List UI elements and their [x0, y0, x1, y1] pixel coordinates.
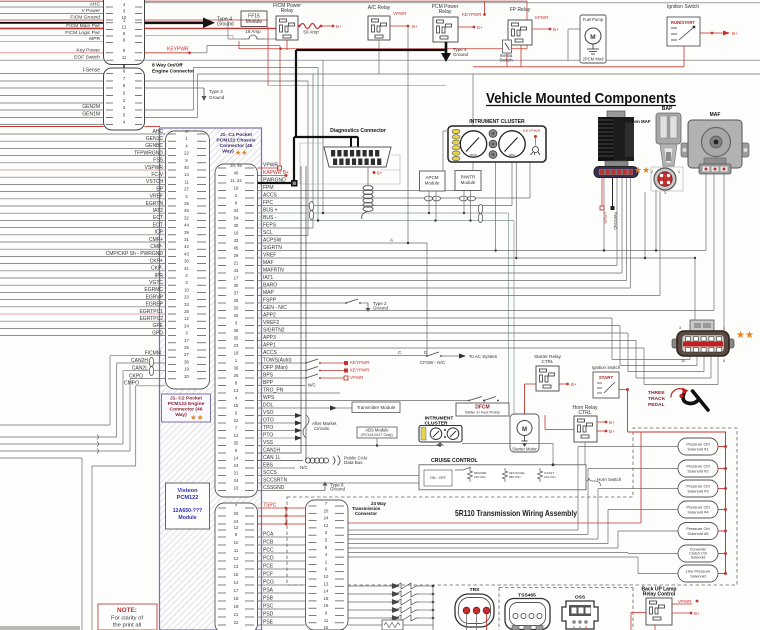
wire riser — [511, 162, 513, 206]
wire TRO_PN — [258, 392, 341, 394]
junction — [298, 25, 301, 28]
wire riser round conn3 — [659, 192, 661, 296]
instrument cluster box — [448, 126, 546, 162]
wire long bus upper — [145, 59, 760, 61]
connector J1-C1 right strip — [215, 164, 258, 497]
svg-text:VREF2: VREF2 — [263, 320, 279, 326]
connector J1-C1 left strip — [166, 131, 210, 389]
svg-text:36: 36 — [184, 359, 189, 364]
svg-text:Way): Way) — [222, 149, 234, 155]
wire PCB — [258, 544, 306, 546]
svg-text:CMPO: CMPO — [124, 381, 139, 387]
wire red AHC feed 2 — [145, 126, 161, 128]
svg-text:GPE: GPE — [152, 323, 163, 329]
svg-text:11: 11 — [324, 618, 329, 623]
wire GEN1C — [0, 140, 166, 142]
svg-text:27: 27 — [184, 352, 189, 357]
wire pedal pin drop — [696, 356, 698, 366]
svg-text:VREF: VREF — [150, 194, 163, 200]
diode-coil symbol — [390, 599, 419, 605]
wire relay drop — [378, 40, 380, 74]
wire — [619, 389, 626, 391]
svg-text:32: 32 — [184, 215, 189, 220]
wire — [0, 80, 104, 82]
svg-text:VPWR: VPWR — [603, 212, 608, 224]
svg-text:3: 3 — [679, 326, 681, 330]
wire ABS drop — [376, 438, 378, 446]
wire IAT1 — [258, 280, 627, 282]
svg-text:13: 13 — [234, 388, 239, 393]
wire solenoid B+ — [718, 573, 726, 575]
svg-text:2PCM Mod: 2PCM Mod — [583, 57, 605, 62]
svg-text:THREE: THREE — [648, 390, 665, 396]
wire backup left — [631, 612, 646, 614]
svg-text:B+: B+ — [377, 171, 383, 176]
connector pedal main — [672, 331, 734, 356]
wire cluster drop 1 — [495, 162, 497, 251]
junction — [550, 16, 552, 18]
solenoid Pressure Ctrl Solenoid #4 — [678, 501, 718, 518]
svg-text:Module: Module — [425, 181, 440, 186]
junction — [432, 617, 435, 620]
svg-text:KEYPWR: KEYPWR — [350, 360, 370, 365]
svg-text:CAN1H: CAN1H — [263, 448, 280, 454]
wire EGRTPC2 — [0, 320, 166, 322]
wire solenoid feed drop — [627, 390, 629, 433]
wire — [360, 302, 368, 304]
arrow after-market — [295, 436, 302, 441]
svg-text:BUS -: BUS - — [263, 215, 277, 221]
svg-text:A/C Relay: A/C Relay — [368, 5, 391, 11]
wire green bus — [194, 67, 319, 69]
svg-text:CAN 1L: CAN 1L — [263, 455, 281, 461]
wire GPE — [0, 327, 166, 329]
svg-text:KEYPWR: KEYPWR — [350, 368, 370, 373]
wire into solenoid — [638, 573, 678, 575]
svg-text:RPM: RPM — [470, 153, 477, 157]
wire — [545, 429, 574, 431]
wire PSB — [258, 600, 306, 602]
wire APCM drop1 — [428, 191, 430, 213]
wire into solenoid — [618, 530, 678, 532]
wire — [0, 124, 104, 126]
junction — [376, 444, 378, 446]
svg-text:FICM Ground: FICM Ground — [70, 15, 100, 21]
junction — [694, 257, 696, 259]
wire DOL — [258, 407, 331, 409]
node TSPC — [285, 523, 288, 526]
junction — [434, 219, 436, 221]
svg-text:PWRGND: PWRGND — [613, 212, 618, 230]
connector diagnostics OBD — [324, 147, 391, 167]
wire — [228, 38, 241, 40]
wire shift solenoid — [348, 593, 390, 595]
wire TPO — [258, 430, 296, 432]
wire into solenoid — [578, 446, 678, 448]
svg-text:26: 26 — [234, 298, 239, 303]
wire into solenoid — [608, 509, 678, 511]
wire MAFRTN — [258, 272, 623, 274]
svg-text:Relay Control: Relay Control — [643, 592, 676, 598]
wire — [597, 421, 605, 423]
wire SIGRTN — [258, 250, 707, 252]
svg-text:Solenoid #4: Solenoid #4 — [687, 510, 709, 515]
svg-text:Engine Connector: Engine Connector — [152, 69, 194, 75]
wire — [403, 624, 433, 626]
wire FICM ground to module — [145, 19, 269, 21]
wire — [193, 68, 195, 110]
svg-text:24: 24 — [234, 519, 239, 524]
wire thick to diagnostics — [294, 136, 358, 138]
svg-text:FP Relay: FP Relay — [510, 7, 531, 13]
wire — [568, 28, 580, 30]
svg-text:Connector (46: Connector (46 — [170, 407, 203, 413]
svg-text:MAF: MAF — [710, 112, 721, 118]
svg-text:★★: ★★ — [634, 165, 650, 175]
resistor cruise resume — [468, 468, 473, 482]
junction VSS — [439, 444, 441, 446]
diode-coil symbol — [390, 607, 419, 613]
wire VREF — [0, 198, 166, 200]
wire FPM — [258, 190, 474, 192]
svg-text:34: 34 — [234, 208, 239, 213]
svg-text:PEDAL: PEDAL — [648, 402, 665, 408]
svg-text:20: 20 — [184, 374, 189, 379]
wire B+ feed top — [0, 0, 527, 2]
wire PCF — [258, 576, 306, 578]
svg-text:24: 24 — [234, 463, 239, 468]
wire B+ feed lower — [473, 66, 684, 68]
svg-text:SIGRTN2: SIGRTN2 — [263, 328, 285, 334]
wire ACCS — [258, 197, 531, 199]
wire — [92, 465, 136, 467]
boundary sensors dashed box — [499, 588, 633, 630]
wire — [265, 38, 278, 40]
svg-text:MPH: MPH — [509, 153, 516, 157]
junction cruise top — [552, 463, 555, 466]
telltale — [489, 140, 497, 148]
wire bend — [122, 371, 124, 444]
junction — [690, 612, 693, 615]
svg-text:Key Power: Key Power — [76, 47, 100, 53]
svg-text:30: 30 — [184, 259, 189, 264]
wire riser strip pin1 — [603, 178, 605, 251]
svg-text:APP2: APP2 — [263, 313, 276, 319]
wire pedal feed — [694, 258, 696, 320]
wire pedal pin drop — [717, 356, 719, 385]
wire solenoid riser — [637, 557, 639, 574]
svg-text:KPWR: KPWR — [535, 15, 549, 20]
svg-text:RIWTR: RIWTR — [461, 175, 476, 180]
node KEYPWR cluster — [534, 135, 537, 138]
svg-text:★★: ★★ — [736, 330, 754, 341]
svg-text:3: 3 — [664, 191, 666, 195]
junction — [432, 609, 435, 612]
wire ACPSW — [258, 242, 428, 244]
svg-text:MAF: MAF — [263, 260, 274, 266]
ground symbol fuel pump — [587, 44, 599, 54]
diode-coil symbol — [390, 583, 419, 589]
svg-text:RUN/START: RUN/START — [671, 20, 695, 25]
wire MAF — [258, 265, 618, 267]
wire TRS1 — [466, 614, 468, 630]
svg-text:VPWR: VPWR — [393, 11, 407, 16]
wire diag ground — [367, 167, 369, 185]
label box J1-C2 — [162, 394, 211, 422]
connector 24-way transmission — [306, 500, 349, 630]
twisted pair RIWTR — [460, 196, 468, 201]
svg-text:25: 25 — [184, 201, 189, 206]
node start B+ — [626, 388, 629, 391]
wire GEN1M ext — [145, 117, 198, 119]
wire shift solenoid — [348, 601, 390, 603]
wire break — [97, 449, 99, 454]
node KEYPWR — [188, 51, 191, 54]
svg-text:Module: Module — [246, 19, 263, 25]
wire shift solenoid — [348, 609, 390, 611]
svg-text:CTRL: CTRL — [578, 410, 591, 416]
svg-text:45: 45 — [184, 208, 189, 213]
wire feed — [0, 450, 130, 452]
relay PCM power — [433, 17, 458, 42]
svg-text:Fuel Pump: Fuel Pump — [583, 17, 604, 22]
switch cruise onoff — [424, 470, 452, 486]
wire SCCS — [258, 475, 420, 477]
svg-text:Ground: Ground — [373, 306, 389, 311]
wire CSSGND — [258, 490, 326, 492]
connector Visteon MAF strip — [594, 161, 638, 178]
svg-text:220 Ohm: 220 Ohm — [474, 475, 486, 479]
node KEYPWR square — [344, 361, 348, 365]
svg-text:GEN1M: GEN1M — [82, 112, 100, 118]
wire EGREP — [0, 306, 166, 308]
diode-coil symbol — [390, 591, 419, 597]
twisted pair APCM — [425, 196, 433, 201]
svg-text:24: 24 — [234, 478, 239, 483]
wire solenoid riser — [627, 553, 629, 554]
svg-text:CFSW - N/C: CFSW - N/C — [420, 360, 446, 365]
svg-text:50 Amp: 50 Amp — [303, 30, 319, 35]
svg-text:Type 2: Type 2 — [209, 89, 223, 94]
svg-text:43: 43 — [184, 251, 189, 256]
module cruise control box — [419, 465, 586, 490]
indicator lamp — [452, 129, 460, 133]
wire TSPC link — [285, 508, 287, 524]
wire GEN2M ext — [145, 109, 194, 111]
scan edge artifact — [0, 626, 80, 630]
wire — [0, 19, 104, 21]
svg-text:CMP+: CMP+ — [149, 237, 163, 243]
svg-text:★★: ★★ — [235, 149, 248, 157]
indicator lamp — [452, 156, 460, 160]
svg-text:Module: Module — [461, 180, 476, 185]
svg-text:CMP/CKP Sh - PWRGND: CMP/CKP Sh - PWRGND — [106, 251, 164, 257]
svg-text:CRUISE CONTROL: CRUISE CONTROL — [431, 458, 479, 464]
wire red top drop — [526, 1, 528, 49]
svg-text:Ignition Switch: Ignition Switch — [667, 4, 699, 10]
svg-text:33: 33 — [234, 238, 239, 243]
svg-text:12: 12 — [184, 316, 189, 321]
stub — [334, 61, 336, 74]
svg-text:22: 22 — [184, 151, 189, 156]
wire vertical to bottom — [91, 466, 93, 630]
wire VPWR drop — [601, 178, 603, 207]
wire — [298, 25, 300, 27]
wire PWRGND — [258, 182, 293, 184]
svg-text:Ground: Ground — [330, 487, 346, 492]
connector PCM lower strip — [215, 503, 258, 630]
switch inertia — [503, 40, 512, 53]
svg-text:PCM122: PCM122 — [177, 495, 199, 501]
svg-text:OFP (Man): OFP (Man) — [263, 365, 288, 371]
wire riser round conn — [655, 190, 657, 251]
svg-text:10: 10 — [184, 287, 189, 292]
svg-text:GEN - N/C: GEN - N/C — [263, 305, 287, 311]
wire TSPC — [258, 523, 306, 525]
wire VSTCH — [0, 183, 166, 185]
junction — [407, 25, 410, 28]
svg-text:★★: ★★ — [190, 413, 204, 422]
svg-text:GEN1C: GEN1C — [146, 136, 164, 142]
svg-text:EGRTPC2: EGRTPC2 — [139, 316, 163, 322]
svg-text:31: 31 — [234, 471, 239, 476]
wire TRS3 — [486, 614, 488, 630]
wire horn drop — [584, 442, 586, 470]
wire vertical to bottom — [81, 458, 83, 630]
svg-text:FEPS: FEPS — [263, 223, 277, 229]
svg-text:MAFRTN: MAFRTN — [263, 268, 284, 274]
switch cruise sw — [455, 467, 471, 470]
wire pedal run — [620, 365, 697, 367]
junction — [566, 383, 569, 386]
svg-text:15: 15 — [234, 572, 239, 577]
svg-text:19: 19 — [184, 367, 189, 372]
connector 8-way on/off engine (lower) — [104, 68, 145, 130]
wire BUS+ — [258, 212, 509, 214]
node — [724, 530, 727, 533]
wire FC-V — [0, 176, 166, 178]
wire OSS3 — [585, 626, 587, 630]
svg-text:ACCS: ACCS — [263, 350, 278, 356]
svg-text:BPP: BPP — [263, 380, 274, 386]
svg-text:To AC System: To AC System — [469, 354, 498, 359]
svg-text:VREF: VREF — [263, 253, 276, 259]
node KAPWR B+ — [285, 174, 288, 177]
svg-text:B+: B+ — [412, 24, 418, 29]
node — [724, 508, 727, 511]
connector TSS465 — [505, 599, 550, 630]
wire ICP — [0, 234, 166, 236]
wire PCC — [258, 552, 306, 554]
solenoid Line Pressure Solenoid — [678, 565, 718, 582]
svg-text:VPWR: VPWR — [350, 375, 364, 380]
wire — [441, 355, 459, 357]
wire pedal run — [612, 359, 690, 361]
arrow DOL — [330, 406, 337, 411]
svg-text:Solenoid #2: Solenoid #2 — [687, 469, 709, 474]
wire ignition drop — [683, 46, 685, 67]
svg-text:25: 25 — [234, 313, 239, 318]
svg-text:SCCSRTN: SCCSRTN — [263, 478, 287, 484]
svg-text:IPR: IPR — [155, 273, 164, 279]
wire — [552, 444, 554, 465]
wire PTO — [258, 437, 296, 439]
wire red AHC feed — [0, 126, 104, 128]
wire red B+ bus — [239, 48, 527, 50]
svg-text:18 Amp: 18 Amp — [245, 29, 261, 34]
wire — [442, 131, 444, 171]
indicator lamp — [452, 151, 460, 155]
junction — [644, 257, 646, 259]
wire solenoid B+ — [718, 530, 726, 532]
wire APP3 — [258, 340, 637, 342]
svg-text:40: 40 — [184, 165, 189, 170]
wire — [419, 585, 433, 587]
svg-text:FSPP: FSPP — [263, 298, 277, 304]
wire FPM riser — [472, 74, 474, 191]
wire FICM main pwr — [145, 27, 279, 29]
wire solenoid B+ — [718, 446, 726, 448]
wire zigzag bus — [432, 586, 434, 630]
module APCM — [420, 171, 446, 191]
svg-text:GEN2M: GEN2M — [82, 104, 100, 110]
svg-text:BUS +: BUS + — [263, 208, 278, 214]
brace after market — [303, 415, 309, 438]
wire — [207, 45, 280, 47]
wire — [672, 603, 692, 605]
svg-text:V Power: V Power — [82, 8, 101, 14]
bracket horn switch — [577, 478, 601, 486]
module DFCM — [456, 403, 509, 416]
node — [724, 445, 727, 448]
svg-text:680 Ohm: 680 Ohm — [509, 475, 521, 479]
svg-text:B+: B+ — [336, 24, 342, 29]
wire RIWTR drop2 — [470, 191, 472, 221]
wire pedal pin drop — [689, 356, 691, 360]
svg-text:11: 11 — [234, 548, 239, 553]
fuse 50 Amp — [300, 24, 320, 29]
wire BPP — [258, 385, 306, 387]
wire VGTC — [0, 284, 166, 286]
svg-text:13: 13 — [324, 581, 329, 586]
node VPWR square — [278, 166, 282, 170]
wire solenoid run — [348, 529, 578, 531]
svg-text:18: 18 — [234, 596, 239, 601]
wire TSPC — [258, 507, 306, 509]
svg-text:40: 40 — [234, 171, 239, 176]
wire ACCS 2 — [258, 355, 428, 357]
svg-text:ACCS: ACCS — [263, 193, 278, 199]
wire PWRGND drop — [612, 178, 614, 207]
resistor cruise set — [503, 468, 508, 482]
motor starter — [510, 414, 539, 452]
arrow after-market — [295, 421, 302, 426]
wire pedal pin drop — [710, 356, 712, 378]
wire VREF — [258, 257, 696, 259]
svg-text:For clarity of: For clarity of — [111, 616, 143, 622]
svg-text:43: 43 — [234, 268, 239, 273]
ground Type 2 arrow — [202, 88, 207, 101]
svg-text:12A650-???: 12A650-??? — [173, 508, 202, 514]
wire — [0, 73, 104, 75]
svg-text:PSE: PSE — [263, 620, 274, 626]
wire long bus lower — [198, 73, 760, 75]
wire cluster2 right — [462, 443, 553, 445]
svg-text:MPR: MPR — [89, 36, 100, 42]
svg-text:KEYPWR: KEYPWR — [167, 47, 189, 53]
switch FSPP — [345, 299, 361, 304]
svg-text:EOF Switch: EOF Switch — [74, 55, 100, 61]
